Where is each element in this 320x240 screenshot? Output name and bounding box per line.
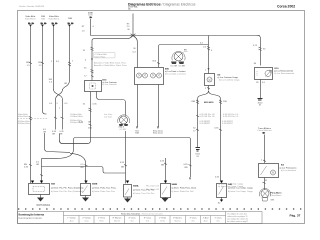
svg-text:b) Luz Diant. y Lectura: b) Luz Diant. y Lectura — [165, 73, 187, 76]
ground below boxL — [165, 198, 167, 199]
svg-text:S68E: S68E — [92, 184, 98, 186]
svg-text:Seta Diant.: Seta Diant. — [153, 132, 164, 135]
bottom boxL — [161, 184, 171, 198]
svg-text:4ª Cinza: 4ª Cinza — [189, 217, 197, 220]
svg-text:4850 4850: 4850 4850 — [204, 101, 214, 104]
K10 output to ground — [260, 80, 262, 99]
junction X on bus — [131, 34, 136, 37]
svg-text:15A: 15A — [88, 127, 92, 130]
horizontal y166.3 — [42, 167, 126, 174]
S68 left pin wire down — [60, 92, 91, 144]
jog from junction to E86 left pin — [92, 36, 137, 80]
lamp E11 socket arc — [118, 115, 130, 123]
svg-text:30B: 30B — [68, 18, 72, 20]
svg-text:b) Interr. Luz Comp. Carga: b) Interr. Luz Comp. Carga — [228, 190, 253, 193]
svg-text:0.35 GR Pta. LE: 0.35 GR Pta. LE — [200, 115, 216, 118]
svg-text:8ª Marrom: 8ª Marrom — [113, 217, 122, 220]
wire W4 vertical with jog — [63, 26, 70, 90]
svg-text:BN: BN — [121, 167, 124, 169]
svg-text:6ª Marcha: 6ª Marcha — [173, 217, 183, 220]
svg-text:b) Interr. Pta. Pte. Pas. (Del: b) Interr. Pta. Pte. Pas. (Delantera) — [51, 190, 83, 193]
Y split to two wires — [198, 91, 221, 182]
tick + label low x220 — [219, 129, 222, 131]
X2 down-right output — [70, 153, 86, 183]
svg-text:GR: GR — [52, 134, 56, 136]
wire W3 vertical into crossover — [53, 26, 55, 90]
crossover X1 — [54, 90, 63, 100]
svg-text:GR: GR — [88, 122, 92, 124]
ground S110 — [258, 99, 263, 101]
tick x90 y76 — [91, 76, 94, 78]
ticks on x197 — [196, 100, 199, 104]
svg-text:b) Luz Cortesía Carga: b) Luz Cortesía Carga — [219, 79, 240, 82]
svg-text:8ª Cinza: 8ª Cinza — [144, 217, 152, 220]
wire x125 lower segment — [125, 131, 127, 184]
svg-text:0.35 BR/RT: 0.35 BR/RT — [200, 123, 212, 125]
relay K10 box — [255, 68, 273, 80]
svg-text:Azul: Azul — [204, 220, 208, 223]
svg-text:Marcha: Marcha — [175, 221, 181, 223]
lamp E8 socket arc — [172, 51, 185, 60]
svg-text:los cables están en pág 11: los cables están en pág 11 — [227, 220, 248, 223]
bottom boxR — [217, 184, 227, 198]
arrow on x90 y58 — [91, 59, 93, 61]
svg-text:BR: BR — [60, 134, 63, 136]
wire 44 down to X2 — [45, 133, 71, 152]
bus right corner drop x260 — [258, 36, 261, 66]
ground below box2 — [85, 196, 87, 198]
tick on x197 wire — [196, 115, 199, 116]
tick on wire 41.4 — [40, 175, 43, 177]
svg-text:15B: 15B — [223, 101, 227, 103]
svg-text:0.35 BR/RT: 0.35 BR/RT — [222, 123, 234, 125]
E9 output wire — [208, 86, 210, 91]
connector ticks x90 y47 — [91, 47, 94, 51]
svg-text:Gris: Gris — [216, 221, 219, 223]
page arrow x90 — [90, 17, 93, 19]
horizontal y44 to E9 drop — [159, 45, 209, 68]
wire W2 vertical — [43, 26, 47, 114]
lamp E8 — [174, 52, 183, 61]
dashed variant line — [18, 118, 48, 120]
page arrows W2 — [41, 23, 47, 25]
switch S68 box — [85, 81, 102, 92]
dotted separator row — [18, 208, 303, 210]
E86 pin circles — [137, 73, 142, 78]
X1 output right — [62, 99, 64, 130]
svg-text:C/Vidro Eléctr.: C/Vidro Eléctr. — [70, 115, 84, 118]
svg-text:43B: 43B — [191, 101, 195, 103]
lamp E11 on x125 wire — [120, 116, 128, 124]
svg-text:Pág. 37: Pág. 37 — [290, 214, 301, 218]
connector ticks on W1 — [29, 117, 32, 121]
S68 inner symbol — [90, 83, 96, 89]
bottom box2 — [81, 184, 91, 196]
E86 bottom pin wires — [138, 85, 159, 128]
switch-lamp box E4 — [259, 164, 279, 178]
svg-text:Azul: Azul — [70, 220, 74, 223]
ticks on x90 lower — [89, 108, 92, 112]
svg-text:Preto: Preto — [99, 220, 103, 223]
svg-text:1ª Preto: 1ª Preto — [98, 217, 105, 220]
svg-text:b) Luz Revezamiento: b) Luz Revezamiento — [275, 72, 295, 75]
drop x208 from bus — [208, 36, 210, 74]
svg-text:30B: 30B — [41, 19, 45, 21]
svg-text:NOTURNAS: NOTURNAS — [37, 204, 51, 207]
S68 right pin wire to x125 — [97, 92, 126, 116]
connector ticks x90 y70 — [91, 70, 94, 74]
ticks on x220 — [219, 100, 222, 104]
svg-text:Cierre Eléctrico: Cierre Eléctrico — [257, 129, 272, 132]
svg-text:1ª Azul: 1ª Azul — [203, 217, 209, 220]
svg-text:GR: GR — [36, 164, 40, 166]
svg-text:Gris: Gris — [146, 221, 149, 223]
svg-text:S/N: S/N — [271, 200, 275, 202]
wire x132 from top — [132, 14, 134, 36]
svg-text:Gris: Gris — [130, 221, 133, 223]
svg-text:b) Luz Cortesía: b) Luz Cortesía — [103, 83, 118, 86]
wire 165 into BoxL — [165, 158, 167, 183]
svg-text:Luz Cort.: Luz Cort. — [104, 116, 113, 119]
ticks on x208 — [207, 47, 210, 51]
svg-text:BN: BN — [161, 165, 164, 167]
svg-text:SW: SW — [38, 62, 41, 64]
V tick into BoxA — [126, 181, 129, 184]
svg-text:Pára-Mares: Pára-Mares — [271, 194, 282, 197]
svg-text:a) Interr. Porta Tras. Pass.: a) Interr. Porta Tras. Pass. — [92, 187, 117, 190]
svg-text:Vidro Eléctr.: Vidro Eléctr. — [48, 18, 60, 21]
page arrows W3 — [52, 23, 58, 25]
svg-text:BN: BN — [185, 167, 188, 169]
svg-text:Verde: Verde — [160, 221, 165, 223]
svg-text:S/Vidro Eléctr.: S/Vidro Eléctr. — [18, 122, 32, 125]
E4 output wire — [264, 178, 266, 190]
V ticks into box1 — [31, 181, 43, 184]
svg-text:Diant. Pass.: Diant. Pass. — [95, 55, 107, 58]
svg-text:Versão / Versión: 5643-023: Versão / Versión: 5643-023 — [19, 5, 45, 8]
svg-text:b) Luz Guantera: b) Luz Guantera — [281, 169, 297, 172]
svg-text:Vidro Eléctr.: Vidro Eléctr. — [25, 18, 37, 21]
svg-text:1ª Verde: 1ª Verde — [159, 217, 166, 220]
title block dividers — [64, 212, 226, 224]
main bus wire — [91, 35, 261, 37]
svg-text:b) Interr. Porta Pas. Del.: b) Interr. Porta Pas. Del. — [172, 190, 195, 193]
lamp box E9 — [205, 74, 215, 86]
bottom box1 interr porta — [29, 184, 50, 195]
lamp X14 socket arc — [259, 188, 270, 196]
svg-text:30B: 30B — [135, 133, 139, 135]
svg-text:4ª Cinza: 4ª Cinza — [128, 217, 136, 220]
end arrows — [136, 127, 138, 130]
svg-text:a) Interr. Pta. Pte. Pass. (Di: a) Interr. Pta. Pte. Pass. (Dianteira) — [51, 187, 84, 190]
svg-text:S68A: S68A — [133, 185, 139, 188]
border frame — [18, 11, 305, 224]
E8 leader and label — [182, 52, 188, 54]
wire W1 vertical — [30, 26, 32, 183]
title block outer — [18, 212, 263, 224]
H1 wire from X2 to x190 — [74, 138, 191, 178]
svg-text:Pta. Diant. LE: Pta. Diant. LE — [146, 188, 159, 191]
H2 wire from 59.3 to S68 wire — [60, 141, 89, 144]
bottom boxA — [124, 185, 132, 198]
ground below box1 — [40, 195, 42, 198]
svg-text:Vidro Eléctr.: Vidro Eléctr. — [18, 115, 30, 118]
svg-text:41BK: 41BK — [88, 15, 94, 17]
E8 socket blocks — [171, 62, 177, 65]
svg-text:Corsa 2002: Corsa 2002 — [277, 5, 295, 9]
gray notes right of x90 — [94, 52, 116, 58]
page arrow trava — [263, 132, 266, 134]
connector ticks W1 W2 y63 — [29, 62, 44, 63]
svg-text:a) Interr. Porta Pass. Diant.: a) Interr. Porta Pass. Diant. — [172, 187, 197, 190]
svg-text:0.35 GR Pta. LD: 0.35 GR Pta. LD — [223, 115, 239, 118]
svg-text:Amarillo c/ Vidro Eléctr. Dian: Amarillo c/ Vidro Eléctr. Diant. Pass. — [94, 64, 128, 67]
svg-text:Cinza: Cinza — [84, 221, 89, 223]
svg-text:0.5 BR: 0.5 BR — [120, 129, 127, 131]
svg-text:1ª Cinza: 1ª Cinza — [214, 217, 222, 220]
svg-text:b) Interr. Tras. Pta. Pte.: b) Interr. Tras. Pta. Pte. — [133, 192, 155, 195]
ground x197 — [196, 148, 201, 152]
svg-text:Texto dos Circuitos / Textos d: Texto dos Circuitos / Textos de los Circ… — [121, 213, 163, 216]
lamp X14 — [261, 190, 269, 198]
splice below boxR — [221, 197, 223, 200]
ground below boxA — [127, 198, 129, 199]
tick + label low x197 — [196, 129, 199, 131]
arrow on x208 — [208, 68, 210, 71]
page arrows W1 — [28, 23, 34, 25]
connector box E86 — [135, 68, 164, 85]
trava wire down — [264, 135, 266, 164]
ticks on x260 — [259, 47, 262, 51]
wire top chevrons — [29, 25, 70, 27]
tick on x158 wire — [157, 63, 160, 65]
svg-text:Gris: Gris — [191, 221, 194, 223]
svg-text:b) Interr. Porta Tras. Pas.: b) Interr. Porta Tras. Pas. — [92, 190, 116, 193]
svg-text:Iluminación Interior: Iluminación Interior — [19, 216, 43, 220]
wire 44 lower continuation to y166 bus — [41, 159, 43, 184]
connector ticks on W4 — [68, 62, 71, 66]
X2 down-left output to box1 right pin — [42, 150, 74, 159]
svg-text:S68B: S68B — [172, 184, 178, 186]
wire x90 top — [90, 19, 92, 36]
svg-text:Pta. Diant. LE: Pta. Diant. LE — [146, 185, 159, 188]
svg-text:0.5 GR: 0.5 GR — [171, 66, 178, 68]
svg-text:2ª Versão: 2ª Versão — [82, 217, 90, 220]
page arrows W4 — [68, 23, 74, 25]
svg-text:b) Interr. Luz Comp. Carga: b) Interr. Luz Comp. Carga — [218, 185, 243, 188]
svg-text:BR: BR — [81, 167, 84, 169]
svg-text:GR: GR — [64, 83, 68, 85]
ticks on X1 outputs — [54, 117, 64, 119]
H1 end arrow — [189, 178, 191, 181]
svg-text:Marrón: Marrón — [114, 221, 120, 223]
svg-text:0.5 BR: 0.5 BR — [179, 66, 186, 68]
V tick into box2 — [85, 181, 88, 184]
X1 output left — [55, 99, 57, 130]
svg-text:Diagramas Elétricos / Diagrama: Diagramas Elétricos / Diagramas Eléctric… — [128, 3, 196, 7]
svg-text:1ª Versão: 1ª Versão — [67, 217, 75, 220]
E11 socket blocks — [119, 124, 123, 126]
